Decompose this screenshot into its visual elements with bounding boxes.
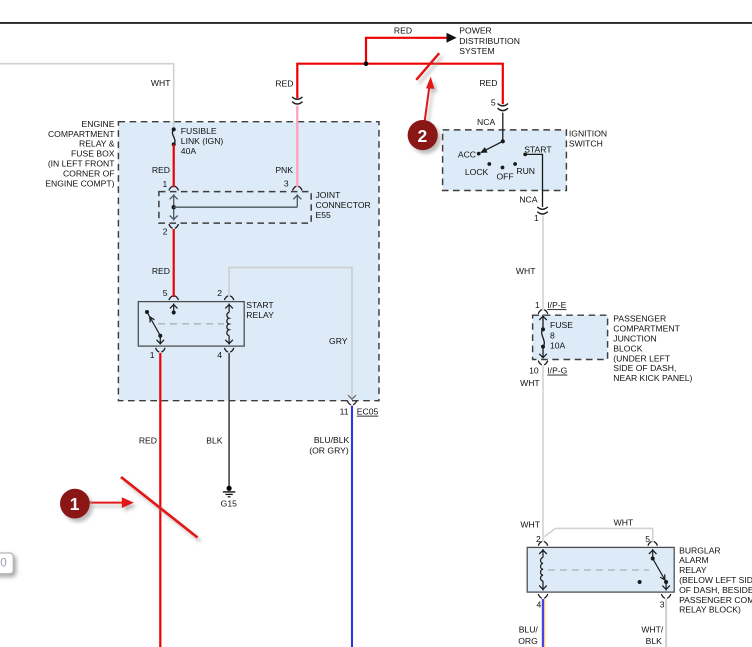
- svg-text:BLK: BLK: [646, 636, 663, 646]
- svg-text:(BELOW LEFT SIDE: (BELOW LEFT SIDE: [679, 575, 752, 585]
- pin 5 connector arc: [169, 296, 173, 300]
- pin 4 connector arc: [538, 594, 542, 598]
- svg-text:WHT: WHT: [151, 78, 171, 88]
- svg-text:1: 1: [150, 350, 155, 360]
- burglar relay coil: [542, 549, 544, 558]
- ignition switch enclosure: [443, 130, 567, 191]
- wire WHT/BLK: [665, 599, 667, 647]
- svg-text:RED: RED: [479, 78, 497, 88]
- svg-text:CONNECTOR: CONNECTOR: [316, 200, 371, 210]
- inline connector on RED/PNK wire: [292, 97, 302, 99]
- contact OFF: [501, 166, 505, 170]
- start relay pin5 stub: [173, 304, 175, 313]
- svg-text:RED: RED: [152, 266, 170, 276]
- svg-text:START: START: [246, 300, 274, 310]
- ignition switch pivot: [501, 139, 505, 143]
- joint connector E55 enclosure: [159, 192, 311, 224]
- svg-text:BLU/: BLU/: [519, 625, 539, 635]
- svg-text:I/P-G: I/P-G: [547, 366, 567, 376]
- svg-text:COMPARTMENT: COMPARTMENT: [613, 324, 680, 334]
- engine compartment relay &amp; fuse box enclosure: [118, 122, 379, 401]
- EC05 connector arc: [347, 401, 351, 405]
- pin 2 connector arc: [169, 224, 173, 228]
- svg-text:8: 8: [550, 330, 555, 340]
- svg-text:RED: RED: [275, 78, 293, 88]
- svg-text:BLOCK: BLOCK: [613, 343, 642, 353]
- pin 3 connector arc: [293, 186, 297, 190]
- fusible link label: [181, 126, 224, 156]
- svg-text:SYSTEM: SYSTEM: [459, 46, 494, 56]
- burglar relay spare contact: [638, 580, 642, 584]
- svg-text:1: 1: [535, 300, 540, 310]
- svg-text:4: 4: [537, 599, 542, 609]
- label BLU/BLK (OR GRY): [309, 435, 349, 455]
- svg-text:NEAR KICK PANEL): NEAR KICK PANEL): [613, 373, 692, 383]
- svg-text:FUSE: FUSE: [550, 320, 573, 330]
- svg-text:POWER: POWER: [459, 26, 491, 36]
- start relay box: [138, 302, 244, 347]
- svg-text:ENGINE: ENGINE: [82, 119, 115, 129]
- svg-text:RELAY &: RELAY &: [79, 139, 115, 149]
- wire WHT junction block to burglar alarm relay: [542, 365, 544, 542]
- svg-text:OFF: OFF: [497, 171, 514, 181]
- svg-text:ORG: ORG: [518, 636, 538, 646]
- svg-text:WHT: WHT: [520, 519, 540, 529]
- svg-text:DISTRIBUTION: DISTRIBUTION: [459, 36, 520, 46]
- pin 1 connector arc: [156, 348, 160, 352]
- pin 1 connector arc (junction block): [538, 310, 542, 314]
- wire GRY start relay pin 2: [229, 268, 352, 399]
- wire RED start relay pin 1 to bottom: [159, 353, 161, 647]
- start relay coil: [228, 304, 230, 313]
- svg-text:(UNDER LEFT: (UNDER LEFT: [613, 353, 671, 363]
- inline connector at ignition pin 5: [498, 104, 508, 106]
- svg-text:RELAY BLOCK): RELAY BLOCK): [679, 605, 741, 615]
- fuse 8 10A element: [542, 315, 544, 328]
- annotation arrow 2: [425, 77, 435, 121]
- joint connector label: [316, 190, 371, 220]
- start relay switch: [145, 310, 149, 314]
- svg-text:IGNITION: IGNITION: [569, 129, 607, 139]
- svg-text:I/P-E: I/P-E: [547, 300, 566, 310]
- svg-text:2: 2: [217, 288, 222, 298]
- svg-text:0: 0: [0, 556, 7, 570]
- svg-text:10: 10: [529, 366, 539, 376]
- svg-text:(IN LEFT FRONT: (IN LEFT FRONT: [48, 159, 115, 169]
- svg-text:EC05: EC05: [357, 407, 379, 417]
- svg-text:3: 3: [660, 599, 665, 609]
- ground G15: [223, 486, 235, 497]
- zoom control button fragment: [0, 553, 13, 574]
- contact ACC: [477, 152, 481, 156]
- svg-text:RED: RED: [139, 436, 157, 446]
- svg-text:4: 4: [217, 350, 222, 360]
- svg-text:COMPARTMENT: COMPARTMENT: [48, 129, 115, 139]
- contact LOCK: [487, 162, 491, 166]
- svg-text:40A: 40A: [181, 146, 197, 156]
- wire WHT from left edge: [0, 64, 174, 128]
- label BLU/ORG: [518, 625, 538, 647]
- burglar alarm relay box: [527, 547, 674, 592]
- svg-text:WHT/: WHT/: [641, 625, 664, 635]
- svg-text:WHT: WHT: [516, 266, 536, 276]
- svg-text:E55: E55: [316, 210, 332, 220]
- wire BLU/ORG: [543, 599, 545, 647]
- wire BLK start relay pin 4 to ground: [228, 353, 230, 486]
- annotation slash 2: [416, 53, 439, 80]
- svg-text:ALARM: ALARM: [679, 555, 709, 565]
- pin 2 connector arc: [224, 296, 228, 300]
- svg-text:3: 3: [284, 179, 289, 189]
- annotation slash 1: [121, 477, 198, 538]
- wire RED to power distribution system: [366, 38, 447, 63]
- start relay internal dashed link: [158, 323, 224, 325]
- pin 1 connector arc: [169, 186, 173, 190]
- ignition switch label: [569, 129, 607, 149]
- pin 10 connector arc: [538, 361, 542, 365]
- annotation circle 2: [408, 120, 438, 150]
- wire RED bus horizontal: [297, 64, 503, 105]
- svg-text:SWITCH: SWITCH: [569, 139, 603, 149]
- svg-text:PASSENGER: PASSENGER: [613, 314, 666, 324]
- svg-text:PASSENGER COMPARTMENT: PASSENGER COMPARTMENT: [679, 595, 752, 605]
- svg-text:2: 2: [418, 126, 428, 146]
- svg-text:FUSE BOX: FUSE BOX: [71, 149, 115, 159]
- top frame rule: [0, 22, 752, 24]
- arrow to power distribution system: [447, 33, 457, 43]
- svg-text:BLU/BLK: BLU/BLK: [314, 435, 350, 445]
- label WHT/BLK: [641, 625, 664, 647]
- pin 2 connector arc: [538, 541, 542, 545]
- joint connector internal bus: [173, 194, 175, 220]
- svg-text:NCA: NCA: [519, 195, 537, 205]
- svg-text:10A: 10A: [550, 341, 566, 351]
- svg-text:FUSIBLE: FUSIBLE: [181, 126, 217, 136]
- svg-text:JOINT: JOINT: [316, 190, 342, 200]
- svg-text:BLK: BLK: [206, 436, 223, 446]
- svg-text:ACC: ACC: [458, 150, 476, 160]
- svg-text:RED: RED: [394, 25, 412, 35]
- inline connector at ignition pin 1: [537, 207, 547, 209]
- wire WHT ignition to junction block: [542, 216, 544, 311]
- svg-text:BURGLAR: BURGLAR: [679, 545, 721, 555]
- svg-text:(OR GRY): (OR GRY): [309, 446, 349, 456]
- svg-text:5: 5: [163, 288, 168, 298]
- power distribution system label: [459, 26, 520, 57]
- svg-text:G15: G15: [221, 498, 237, 508]
- junction node: [364, 61, 369, 66]
- svg-text:11: 11: [340, 407, 349, 417]
- wire START to pin 1: [525, 154, 542, 207]
- contact RUN: [513, 162, 517, 166]
- svg-text:LOCK: LOCK: [465, 167, 489, 177]
- engine compartment box label: [45, 119, 115, 188]
- pin 4 connector arc: [224, 348, 228, 352]
- wire RED fusible link to joint connector: [173, 144, 175, 187]
- svg-text:1: 1: [70, 494, 80, 514]
- svg-text:OF DASH, BESIDE: OF DASH, BESIDE: [679, 585, 752, 595]
- burglar relay internal dashed link: [548, 569, 649, 571]
- svg-text:RELAY: RELAY: [679, 565, 707, 575]
- junction block label: [613, 314, 692, 383]
- svg-text:NCA: NCA: [477, 117, 495, 127]
- svg-text:LINK (IGN): LINK (IGN): [181, 136, 224, 146]
- start relay label: [246, 300, 274, 320]
- wire RED joint connector to start relay: [173, 229, 175, 297]
- annotation circle 1: [60, 489, 90, 519]
- svg-text:PNK: PNK: [275, 165, 293, 175]
- wire to ignition switch: [502, 113, 504, 142]
- svg-text:CORNER OF: CORNER OF: [63, 168, 115, 178]
- pin 3 connector arc: [661, 594, 665, 598]
- svg-text:START: START: [524, 144, 552, 154]
- svg-text:RED: RED: [152, 165, 170, 175]
- passenger compartment junction block enclosure: [533, 315, 608, 359]
- svg-text:1: 1: [534, 213, 539, 223]
- wire WHT branch to pin 5: [544, 528, 653, 542]
- pin 5 connector arc: [648, 541, 652, 545]
- svg-text:GRY: GRY: [329, 336, 348, 346]
- svg-text:1: 1: [163, 179, 168, 189]
- svg-text:WHT: WHT: [520, 378, 540, 388]
- contact START: [523, 153, 527, 157]
- burglar alarm relay label: [679, 545, 752, 614]
- ignition switch wiper to ACC: [481, 141, 503, 152]
- svg-text:RELAY: RELAY: [246, 310, 274, 320]
- fusible link (IGN) 40A: [172, 127, 176, 131]
- svg-text:RUN: RUN: [516, 166, 535, 176]
- burglar relay switch: [652, 549, 654, 559]
- svg-text:5: 5: [491, 97, 496, 107]
- svg-text:JUNCTION: JUNCTION: [613, 334, 656, 344]
- svg-text:WHT: WHT: [614, 517, 634, 527]
- wire PNK: [296, 106, 298, 188]
- fuse label: [550, 320, 573, 350]
- svg-text:2: 2: [163, 227, 168, 237]
- svg-text:ENGINE COMPT): ENGINE COMPT): [45, 178, 114, 188]
- annotation arrow 1: [89, 497, 134, 508]
- wire BLU/BLK: [351, 406, 353, 647]
- svg-text:SIDE OF DASH,: SIDE OF DASH,: [613, 363, 676, 373]
